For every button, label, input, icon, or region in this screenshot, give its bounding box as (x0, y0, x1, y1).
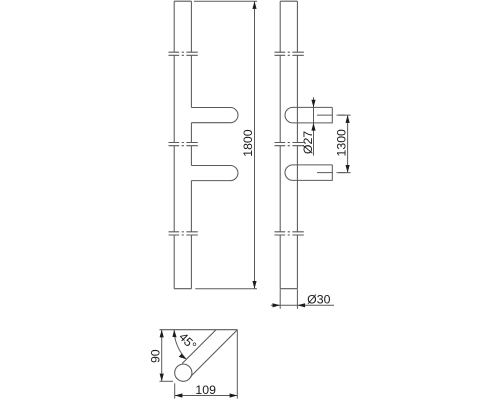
arrow 90 top (160, 330, 164, 338)
wire left edge segments (173, 1, 175, 289)
dimension line (347, 115, 349, 172)
arrow 45 top (172, 330, 176, 338)
arrow 1300 top (346, 115, 350, 123)
front view bar outline (174, 1, 191, 289)
dimension 90 (160, 330, 174, 382)
wire right edge segments (296, 1, 298, 289)
extension line right (236, 331, 238, 399)
extension line lower (337, 172, 351, 174)
svg-text:Ø27: Ø27 (301, 131, 315, 154)
bottom end cap (174, 288, 191, 290)
dimension 45 degrees arc (174, 330, 186, 360)
side view break symbol 2 (275, 143, 304, 146)
detail view: stub upper edge 45deg (182, 330, 216, 364)
top end cap (280, 0, 297, 2)
side view break symbol 3 (275, 232, 304, 235)
top end cap (174, 0, 191, 2)
dimension 1800 (194, 1, 257, 289)
front view break symbol 2 (169, 143, 198, 146)
arrow 109 right (230, 393, 238, 397)
extension line left (174, 383, 176, 398)
front view break symbol 1 (169, 52, 198, 55)
extension line bottom (195, 288, 257, 290)
side view stub 2 centerline (317, 172, 345, 174)
dimension diameter 30 (271, 289, 334, 309)
side view break symbol 1 (275, 52, 304, 55)
arrow 1800 top (252, 1, 256, 9)
arrow 109 left (175, 393, 183, 397)
detail view: door face line (160, 329, 238, 331)
arrow 90 bottom (160, 374, 164, 382)
arrow 45 bottom (179, 354, 187, 360)
dimension 1300 (337, 115, 351, 172)
wire left edge segments (279, 1, 281, 289)
svg-text:1800: 1800 (241, 129, 255, 157)
side view bar outline (280, 1, 297, 289)
extension line left (279, 289, 281, 309)
arrow d27 bottom (311, 123, 315, 131)
detail view: tube circle (175, 364, 192, 381)
front view break symbol 3 (169, 232, 198, 235)
arrow 1800 bottom (252, 281, 256, 289)
wire right edge segments (190, 1, 192, 289)
arrow d30 left (273, 303, 281, 307)
dimension line (271, 304, 334, 306)
dimension line (254, 1, 256, 289)
extension line bottom (160, 380, 174, 382)
front view support stub 1 (191, 108, 238, 123)
dimension diameter 27 (313, 97, 315, 155)
dimension line (175, 395, 238, 397)
svg-text:Ø30: Ø30 (307, 292, 330, 306)
dimension line (161, 330, 163, 382)
extension line upper (337, 114, 351, 116)
svg-text:109: 109 (195, 383, 216, 397)
side view support stub 1 (285, 107, 332, 123)
dimension 109 (175, 331, 238, 399)
extension line right (296, 289, 298, 309)
arrow d30 right (297, 303, 305, 307)
side view stub 1 centerline (317, 114, 345, 116)
svg-text:1300: 1300 (334, 129, 348, 157)
side view support stub 2 (285, 165, 332, 181)
arrow d27 top (311, 100, 315, 108)
arrow 1300 bottom (346, 165, 350, 173)
svg-text:90: 90 (148, 349, 162, 363)
bottom end cap (280, 288, 297, 290)
detail view: stub lower edge 45deg (190, 330, 237, 377)
front view support stub 2 (191, 166, 238, 181)
extension line top (194, 0, 257, 2)
